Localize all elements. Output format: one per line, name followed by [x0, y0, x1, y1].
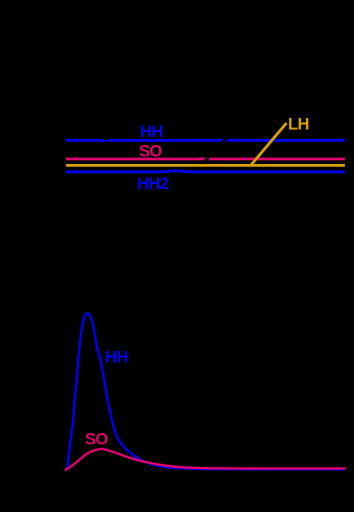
- SO spectral curve (crimson): [65, 449, 346, 471]
- black band line crossing (invisible on black bg, cuts blue and crimson): [198, 133, 232, 169]
- HH spectral curve (blue): [66, 314, 345, 471]
- LH callout diagonal line (orange): [251, 123, 287, 165]
- svg-text:SO: SO: [85, 431, 108, 449]
- svg-text:SO: SO: [139, 143, 162, 161]
- LH level line (orange, drawn over black crossing): [66, 164, 345, 167]
- HH2 level line (blue): [66, 170, 345, 174]
- svg-text:HH: HH: [105, 349, 128, 367]
- SO level line (crimson): [66, 158, 345, 161]
- black nick on HH1 line top edge: [104, 139, 108, 140]
- svg-text:HH2: HH2: [137, 175, 169, 193]
- HH1 level line (blue): [66, 139, 345, 142]
- svg-text:HH: HH: [140, 123, 163, 141]
- svg-text:LH: LH: [288, 116, 309, 134]
